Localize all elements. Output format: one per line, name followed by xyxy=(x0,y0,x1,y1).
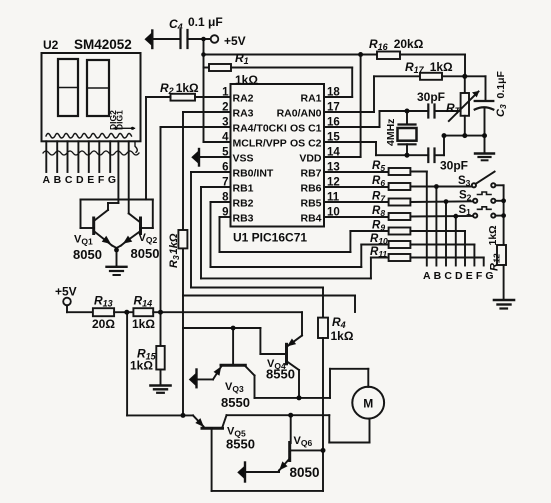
svg-text:OS C1: OS C1 xyxy=(290,123,322,135)
svg-text:VDD: VDD xyxy=(299,153,322,165)
svg-text:ABCDEFG: ABCDEFG xyxy=(43,174,120,186)
svg-text:5: 5 xyxy=(222,147,229,159)
svg-text:RA2: RA2 xyxy=(233,93,254,105)
svg-text:14: 14 xyxy=(327,147,340,159)
svg-text:1kΩ: 1kΩ xyxy=(132,317,155,331)
svg-text:RB6: RB6 xyxy=(300,183,321,195)
svg-text:RB2: RB2 xyxy=(233,198,254,210)
svg-text:RA0/AN0: RA0/AN0 xyxy=(277,108,322,120)
svg-text:4: 4 xyxy=(222,132,229,144)
svg-text:17: 17 xyxy=(327,102,340,114)
svg-text:1kΩ: 1kΩ xyxy=(130,359,153,373)
svg-text:R14: R14 xyxy=(134,294,153,309)
svg-text:C3: C3 xyxy=(495,104,508,117)
svg-text:VQ2: VQ2 xyxy=(139,232,158,245)
svg-text:18: 18 xyxy=(327,87,340,99)
svg-text:RB3: RB3 xyxy=(233,213,254,225)
svg-text:R171kΩ: R171kΩ xyxy=(405,60,453,75)
svg-text:3: 3 xyxy=(222,117,228,129)
svg-text:8: 8 xyxy=(222,192,229,204)
svg-text:8550: 8550 xyxy=(266,367,295,382)
svg-text:1kΩ: 1kΩ xyxy=(487,225,499,245)
svg-text:8550: 8550 xyxy=(221,395,250,410)
svg-text:S2: S2 xyxy=(459,190,472,203)
svg-text:20Ω: 20Ω xyxy=(92,317,115,331)
svg-text:R10: R10 xyxy=(370,233,388,246)
svg-text:VQ3: VQ3 xyxy=(225,381,244,394)
svg-text:RA1: RA1 xyxy=(300,93,321,105)
svg-text:R1620kΩ: R1620kΩ xyxy=(369,37,424,52)
svg-text:8550: 8550 xyxy=(226,437,255,452)
svg-text:R9: R9 xyxy=(372,220,385,233)
svg-text:S3: S3 xyxy=(458,175,471,188)
svg-text:R4: R4 xyxy=(332,315,346,330)
svg-text:30pF: 30pF xyxy=(440,159,468,173)
svg-text:RB5: RB5 xyxy=(300,198,321,210)
svg-text:0.1μF: 0.1μF xyxy=(495,70,507,98)
svg-text:MCLR/VPP: MCLR/VPP xyxy=(233,138,287,150)
svg-text:RT: RT xyxy=(446,101,462,116)
svg-text:+5V: +5V xyxy=(55,285,77,299)
svg-text:9: 9 xyxy=(222,207,228,219)
svg-text:RA3: RA3 xyxy=(233,108,254,120)
svg-text:1: 1 xyxy=(222,87,229,99)
svg-text:RB7: RB7 xyxy=(300,168,321,180)
svg-text:S1: S1 xyxy=(459,204,472,217)
svg-text:VSS: VSS xyxy=(233,153,254,165)
svg-text:+5V: +5V xyxy=(224,34,246,48)
svg-text:U1 PIC16C71: U1 PIC16C71 xyxy=(233,231,307,245)
svg-text:1kΩ: 1kΩ xyxy=(235,73,258,87)
svg-text:7: 7 xyxy=(222,177,228,189)
svg-text:1kΩ: 1kΩ xyxy=(331,329,354,343)
svg-text:R5: R5 xyxy=(372,160,385,173)
svg-text:R12: R12 xyxy=(489,253,502,271)
svg-text:SM42052: SM42052 xyxy=(74,37,132,52)
svg-text:R6: R6 xyxy=(372,175,385,188)
svg-text:R11: R11 xyxy=(370,246,387,259)
svg-text:15: 15 xyxy=(327,132,340,144)
svg-text:RB4: RB4 xyxy=(300,213,321,225)
svg-text:2: 2 xyxy=(222,102,228,114)
svg-text:R21kΩ: R21kΩ xyxy=(160,81,199,96)
svg-text:R13: R13 xyxy=(94,294,113,309)
svg-text:R31kΩ: R31kΩ xyxy=(168,233,181,268)
svg-text:12: 12 xyxy=(327,177,340,189)
svg-text:RB0/INT: RB0/INT xyxy=(233,168,274,180)
svg-text:4MHz: 4MHz xyxy=(385,119,397,146)
svg-text:11: 11 xyxy=(327,192,340,204)
svg-text:8050: 8050 xyxy=(131,246,160,261)
svg-text:DIG1: DIG1 xyxy=(115,110,125,130)
svg-text:R8: R8 xyxy=(372,205,385,218)
svg-text:0.1 μF: 0.1 μF xyxy=(188,15,223,29)
svg-text:30pF: 30pF xyxy=(417,90,445,104)
svg-text:VQ1: VQ1 xyxy=(74,234,93,247)
svg-text:R1: R1 xyxy=(235,51,249,66)
svg-text:U2: U2 xyxy=(43,38,59,52)
svg-text:16: 16 xyxy=(327,117,340,129)
svg-text:OS C2: OS C2 xyxy=(290,138,322,150)
svg-text:10: 10 xyxy=(327,207,340,219)
svg-text:6: 6 xyxy=(222,162,228,174)
svg-text:VQ6: VQ6 xyxy=(294,435,313,448)
svg-text:RA4/T0CKI: RA4/T0CKI xyxy=(233,123,287,135)
svg-text:8050: 8050 xyxy=(73,247,102,262)
svg-text:8050: 8050 xyxy=(290,465,320,480)
svg-text:C4: C4 xyxy=(169,17,183,32)
svg-text:13: 13 xyxy=(327,162,340,174)
svg-text:RB1: RB1 xyxy=(233,183,254,195)
svg-text:ABCDEFG: ABCDEFG xyxy=(423,270,497,282)
svg-text:M: M xyxy=(363,397,373,411)
svg-text:R7: R7 xyxy=(372,191,386,204)
